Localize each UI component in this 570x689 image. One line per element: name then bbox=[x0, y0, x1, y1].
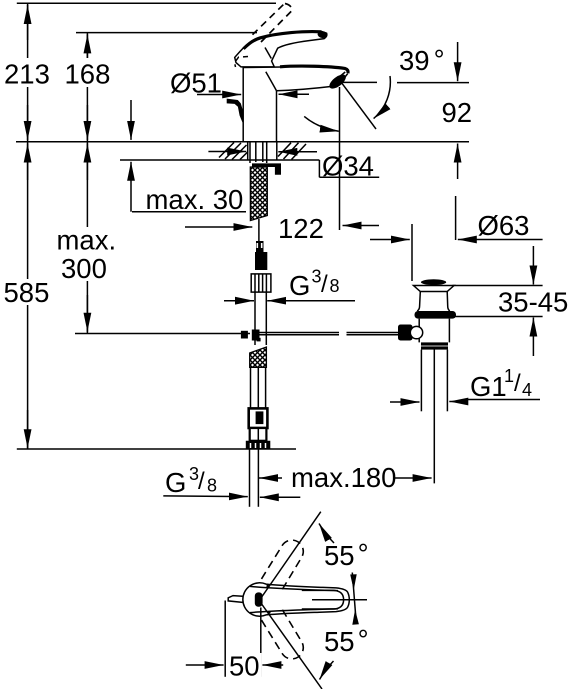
raised lever dashed bbox=[253, 4, 293, 43]
55° lower radius line bbox=[260, 601, 323, 689]
counter top line bbox=[16, 141, 469, 143]
spout-body fillet curve bbox=[266, 72, 277, 91]
svg-text:max. 30: max. 30 bbox=[146, 184, 244, 215]
39° arc upper arrow bbox=[374, 76, 391, 119]
faucet body left edge bbox=[242, 67, 244, 141]
handle screw dots bbox=[266, 585, 269, 588]
svg-text:8: 8 bbox=[207, 476, 217, 496]
counter hatching right bbox=[278, 143, 306, 160]
svg-text:35-45: 35-45 bbox=[498, 287, 568, 318]
dimension Ø34 arrows bbox=[208, 151, 246, 153]
angle tick at 0° bbox=[352, 573, 356, 624]
svg-text:8: 8 bbox=[330, 276, 340, 296]
spout nose inner edge bbox=[333, 72, 346, 83]
svg-text:max.: max. bbox=[57, 225, 117, 256]
svg-text:G: G bbox=[289, 270, 310, 301]
dimension 585 line bbox=[27, 142, 29, 449]
svg-text:213: 213 bbox=[4, 58, 50, 89]
drain body bars bbox=[421, 342, 448, 345]
55° lower arc arrow bbox=[320, 661, 334, 680]
water stream vertical extension bbox=[339, 87, 341, 230]
dimension max.180 bbox=[259, 477, 282, 479]
aerator axis leader bbox=[342, 83, 376, 129]
dimension 50 bbox=[224, 601, 226, 677]
handle inner rounded rect bbox=[302, 590, 344, 609]
tick arrow upper bbox=[350, 574, 357, 590]
dimension G3/8 upper bbox=[224, 300, 254, 302]
lever top edge thick stroke bbox=[244, 32, 322, 49]
pop-up rod (double line) bbox=[252, 332, 339, 334]
drain body bbox=[419, 319, 449, 343]
drain ball joint bbox=[410, 326, 422, 338]
tick arrow lower bbox=[352, 610, 359, 625]
dashed lever top view lower bbox=[262, 609, 304, 659]
supply pipe bottom bbox=[249, 449, 251, 507]
svg-text:/: / bbox=[198, 468, 205, 495]
svg-text:max.180: max.180 bbox=[291, 462, 396, 493]
handle pivot pill bbox=[255, 592, 263, 606]
label 585 bbox=[2, 279, 53, 305]
extension line bottom (hose end) bbox=[17, 448, 296, 450]
dimension 35-45 bbox=[453, 285, 543, 287]
spout aerator bbox=[327, 72, 348, 91]
drain rod knob bbox=[398, 325, 413, 341]
55° upper arc arrow bbox=[319, 524, 334, 544]
hose top fitting bbox=[256, 241, 264, 253]
lever neck inner line bbox=[265, 48, 271, 59]
label 168 bbox=[62, 58, 111, 87]
lever handle outline bbox=[235, 31, 327, 67]
extension line top of raised lever bbox=[17, 2, 276, 4]
dimension 168 line bbox=[86, 33, 88, 142]
drain centerline lower bbox=[433, 350, 435, 484]
svg-text:3: 3 bbox=[312, 266, 322, 286]
label 213 bbox=[2, 58, 52, 87]
spout top edge bbox=[280, 66, 348, 73]
lever tip blob bbox=[317, 31, 328, 39]
drain o-ring bbox=[415, 311, 457, 319]
G3/8 nut bbox=[251, 274, 271, 292]
hose lower striped tube bbox=[250, 428, 267, 441]
svg-text:1: 1 bbox=[504, 366, 514, 386]
faucet body right edge bbox=[276, 91, 278, 142]
horizontal axis line bbox=[312, 599, 367, 601]
hose end nut bbox=[246, 441, 270, 449]
39° arc lower arrow bbox=[304, 116, 339, 131]
svg-text:55°: 55° bbox=[324, 624, 369, 657]
handle top view inner edge bottom bbox=[250, 609, 338, 613]
dimension 92 bbox=[457, 42, 459, 81]
hose crimp block bbox=[249, 408, 268, 428]
55° upper radius line bbox=[261, 512, 321, 598]
dimension 122 bbox=[185, 226, 252, 228]
dashed lever top view upper bbox=[262, 540, 304, 590]
dimension max.300 line bbox=[86, 142, 88, 334]
faucet body top / spout junction bbox=[243, 66, 282, 69]
counter bottom line bbox=[120, 159, 319, 161]
mounting hole walls bbox=[247, 142, 249, 160]
drain cap bbox=[421, 279, 446, 285]
handle top view inner edge top bbox=[250, 586, 338, 590]
dimension max.30 arrows bbox=[130, 100, 132, 140]
rod clamp at hose bbox=[241, 331, 248, 339]
svg-text:50: 50 bbox=[229, 651, 260, 682]
handle nose tab bbox=[228, 596, 242, 603]
svg-text:122: 122 bbox=[278, 213, 324, 244]
svg-text:/: / bbox=[514, 370, 521, 397]
dimension Ø63 bbox=[370, 239, 410, 241]
svg-text:Ø63: Ø63 bbox=[478, 210, 530, 241]
handle top view outline bbox=[243, 583, 349, 616]
svg-text:G1: G1 bbox=[470, 371, 507, 402]
raised lever front tip dashed bbox=[235, 57, 249, 68]
svg-text:168: 168 bbox=[65, 58, 111, 89]
svg-text:4: 4 bbox=[522, 380, 532, 400]
label max. 300 bbox=[54, 227, 117, 281]
dimension 213 line bbox=[27, 3, 29, 142]
svg-text:55°: 55° bbox=[324, 538, 369, 571]
drain flange extension lines bbox=[411, 224, 413, 281]
drain flange bbox=[414, 286, 455, 292]
lever front hook bbox=[227, 99, 244, 125]
extension line 168 top bbox=[76, 32, 257, 34]
svg-text:G: G bbox=[165, 467, 186, 498]
label Ø34 bbox=[318, 160, 320, 177]
hose tube walls bbox=[250, 367, 252, 408]
extension line max300 bottom / pop-up rod level bbox=[75, 333, 250, 335]
svg-text:39°: 39° bbox=[399, 44, 445, 76]
svg-text:92: 92 bbox=[442, 97, 473, 128]
supply hose upper centerline bbox=[258, 219, 260, 241]
shank in hole bbox=[249, 142, 251, 163]
hose pipe below nut bbox=[254, 292, 256, 345]
svg-text:300: 300 bbox=[61, 253, 107, 284]
svg-text:585: 585 bbox=[4, 277, 50, 308]
39° underline / 92 extension bbox=[343, 81, 377, 83]
spout bottom edge bbox=[277, 73, 348, 90]
svg-text:/: / bbox=[321, 271, 328, 298]
drain neck bbox=[417, 292, 450, 312]
drain tailpipe bbox=[420, 350, 422, 412]
threaded shank hatched bbox=[250, 167, 267, 221]
counter hatching left bbox=[219, 143, 248, 160]
hose hatched section bbox=[250, 347, 267, 367]
below counter: washer L-piece bbox=[252, 163, 281, 174]
